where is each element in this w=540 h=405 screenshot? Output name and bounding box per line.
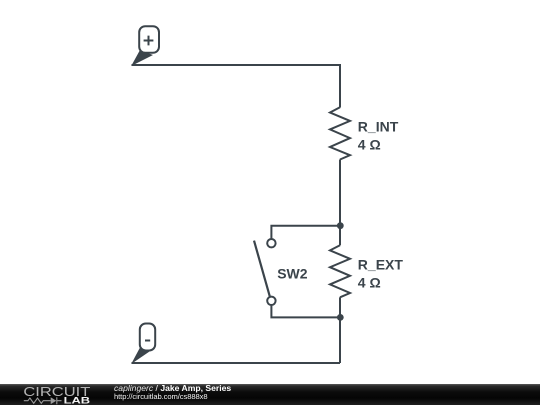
resistor R_INT (zigzag) bbox=[330, 107, 350, 159]
svg-text:SW2: SW2 bbox=[277, 265, 308, 281]
svg-text:4 Ω: 4 Ω bbox=[358, 137, 381, 153]
svg-text:LAB: LAB bbox=[64, 394, 91, 405]
wire: top horizontal from + terminal bbox=[132, 64, 341, 66]
wire: node A down into R_EXT bbox=[339, 226, 341, 246]
label SW2 bbox=[277, 265, 308, 281]
wire: switch bottom to node B bbox=[271, 305, 340, 317]
wire: node A left to switch branch bbox=[271, 226, 340, 239]
footer logo CIRCUITLAB bbox=[0, 384, 110, 405]
wire: R_EXT bottom to node B bbox=[339, 297, 341, 317]
svg-text:4 Ω: 4 Ω bbox=[358, 275, 381, 291]
switch SW2 (open SPST) bbox=[254, 239, 276, 305]
footer credit line bbox=[114, 384, 231, 393]
node B (junction dot) bbox=[337, 314, 344, 321]
wire: vertical into R_INT bbox=[339, 64, 341, 108]
footer black bar bbox=[0, 384, 540, 405]
wire: R_INT bottom to node A bbox=[339, 160, 341, 226]
footer url line bbox=[114, 393, 208, 401]
svg-text:R_EXT: R_EXT bbox=[358, 256, 404, 272]
node A (junction dot) bbox=[337, 222, 344, 229]
svg-text:R_INT: R_INT bbox=[358, 118, 399, 134]
label R_INT 4Ω bbox=[358, 118, 399, 152]
terminal +V (positive terminal bubble) bbox=[131, 26, 159, 66]
terminal -V (negative terminal bubble) bbox=[131, 324, 155, 365]
wire: bottom horizontal to - terminal bbox=[132, 362, 341, 364]
wire: node B down to bottom rail bbox=[339, 317, 341, 363]
resistor R_EXT (zigzag) bbox=[330, 245, 350, 297]
label R_EXT 4Ω bbox=[358, 256, 404, 290]
